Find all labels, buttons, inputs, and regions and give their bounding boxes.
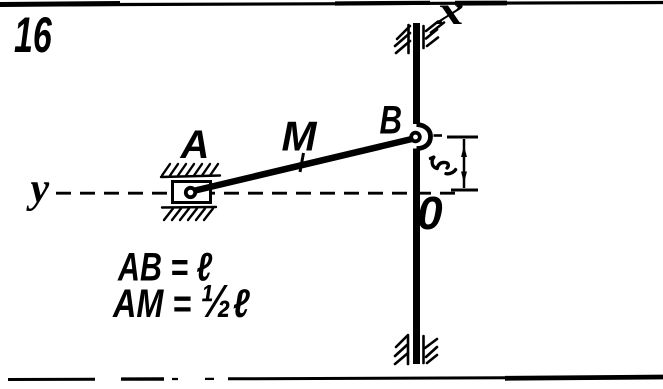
svg-text:16: 16 bbox=[14, 8, 52, 64]
svg-text:M: M bbox=[282, 113, 318, 160]
svg-text:y: y bbox=[26, 166, 50, 212]
svg-text:AM = ½ℓ: AM = ½ℓ bbox=[112, 275, 251, 327]
svg-text:x: x bbox=[436, 0, 464, 33]
svg-text:0: 0 bbox=[417, 187, 443, 239]
svg-text:A: A bbox=[180, 123, 210, 167]
svg-text:B: B bbox=[380, 98, 403, 143]
